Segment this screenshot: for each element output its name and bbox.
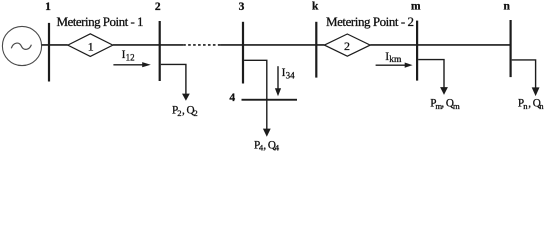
bus 3 — [242, 22, 244, 84]
load arrow bus2 — [182, 94, 190, 101]
label Pm, Qm — [430, 98, 460, 111]
svg-text:3: 3 — [239, 1, 245, 13]
load arrow bus4 — [263, 129, 271, 137]
svg-text:4: 4 — [229, 92, 235, 104]
svg-text:n: n — [539, 101, 544, 111]
label Pn, Qn — [518, 98, 544, 111]
svg-text:m: m — [453, 101, 460, 111]
bus 1 — [48, 23, 50, 82]
load wire at bus n — [512, 60, 536, 88]
load wire bus3 to bus4 load — [244, 60, 267, 129]
label P4, Q4 — [254, 139, 280, 152]
load wire at bus2 — [161, 64, 186, 94]
wire dashed section — [183, 44, 220, 46]
wire diamond2 to bus m to bus n — [370, 44, 510, 46]
svg-text:n: n — [503, 1, 510, 13]
bus n — [510, 20, 512, 77]
svg-text:12: 12 — [126, 53, 135, 63]
svg-text:,: , — [182, 105, 185, 117]
svg-text:2: 2 — [193, 108, 197, 118]
svg-text:34: 34 — [286, 70, 296, 80]
svg-text:k: k — [312, 1, 319, 13]
svg-text:km: km — [389, 55, 402, 65]
bus 2 — [159, 21, 161, 81]
wire gen to bus1 and bus1 to diamond1 — [42, 44, 68, 46]
load wire at bus m — [418, 60, 444, 88]
svg-text:2: 2 — [177, 108, 181, 118]
svg-text:2: 2 — [344, 39, 350, 53]
bus m — [416, 21, 418, 81]
arrow I12 — [113, 64, 143, 66]
svg-text:Metering Point - 1: Metering Point - 1 — [57, 14, 144, 29]
load arrow bus n — [532, 87, 540, 96]
svg-text:1: 1 — [45, 1, 51, 13]
svg-text:,: , — [441, 98, 444, 110]
arrow Ikm — [376, 64, 405, 66]
svg-text:Metering Point - 2: Metering Point - 2 — [326, 14, 414, 29]
svg-text:,: , — [528, 98, 531, 110]
metering point U1 diamond — [68, 34, 113, 57]
bus k — [315, 22, 317, 78]
svg-text:4: 4 — [275, 143, 280, 153]
load arrow bus m — [440, 87, 448, 95]
wire bus2 solid to dashes — [160, 44, 184, 46]
metering point U2 diamond — [324, 34, 370, 56]
wire dashes to bus3 to bus k to diamond2 — [220, 44, 324, 46]
svg-text:,: , — [263, 139, 266, 151]
svg-text:2: 2 — [155, 1, 161, 13]
wire diamond1 to bus2 — [113, 44, 160, 46]
generator G — [2, 26, 41, 65]
svg-text:m: m — [411, 1, 421, 13]
arrow I34 — [277, 66, 279, 89]
label P2, Q2 — [172, 105, 198, 118]
svg-text:1: 1 — [88, 40, 94, 54]
bus 4 — [242, 99, 298, 101]
